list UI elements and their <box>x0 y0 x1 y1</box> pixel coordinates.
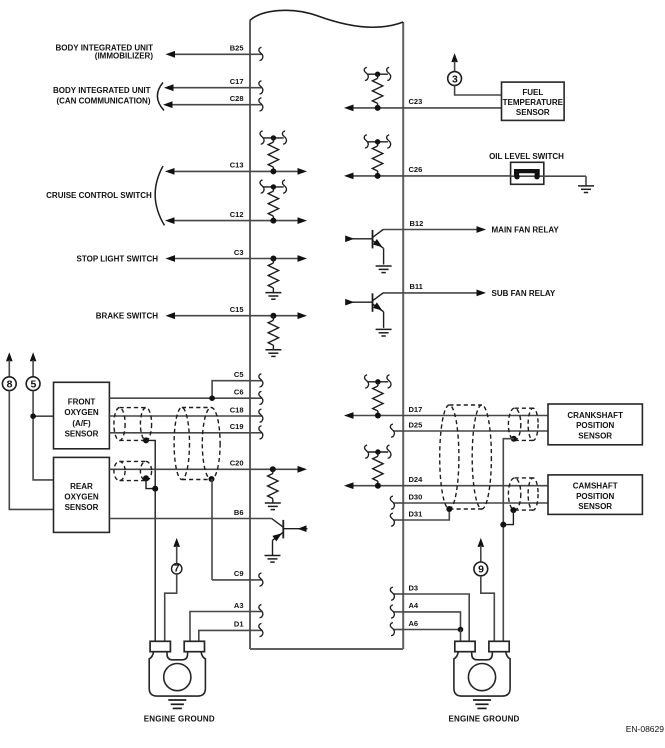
fuel temperature sensor box <box>502 82 565 120</box>
svg-text:SENSOR: SENSOR <box>516 108 550 117</box>
resistor pull-down at C20 with ground <box>265 466 281 509</box>
svg-text:CAMSHAFT: CAMSHAFT <box>573 482 618 491</box>
right engine ground lug <box>448 641 519 723</box>
node A3: ECM ground wire <box>190 601 263 642</box>
outer shield (dashed) around D17/D25/D24/D30 harness <box>440 405 492 512</box>
node D3: ECM ground wire <box>390 583 469 641</box>
svg-text:BRAKE SWITCH: BRAKE SWITCH <box>96 312 158 321</box>
svg-text:BODY INTEGRATED UNIT: BODY INTEGRATED UNIT <box>53 86 151 95</box>
svg-text:CRANKSHAFT: CRANKSHAFT <box>567 411 623 420</box>
svg-text:D24: D24 <box>409 475 424 484</box>
node C15: brake switch wire <box>96 305 307 321</box>
node C17: CAN wire <box>164 77 263 94</box>
rear oxygen sensor box <box>54 457 110 532</box>
node A4: ECM ground wire <box>390 601 460 629</box>
left engine ground lug <box>144 641 215 723</box>
node C9: shield drain pin <box>212 569 263 586</box>
ground <box>265 293 281 300</box>
crankshaft shield drain <box>503 436 517 642</box>
outer shield drain to C9 <box>209 476 215 580</box>
svg-text:D17: D17 <box>409 405 423 414</box>
node 7: circled connector 7 with up arrow <box>165 538 182 641</box>
svg-text:B11: B11 <box>410 282 423 291</box>
svg-text:(A/F): (A/F) <box>72 419 91 428</box>
shield (dashed) around D17/D25 near crankshaft sensor <box>508 408 538 440</box>
wire from 5 down with branch to both sensors <box>33 391 53 480</box>
svg-text:ENGINE GROUND: ENGINE GROUND <box>144 715 215 724</box>
resistor pull-down at C15 with ground <box>265 313 281 357</box>
svg-text:B25: B25 <box>230 44 244 53</box>
svg-text:SENSOR: SENSOR <box>65 429 99 438</box>
svg-text:(CAN COMMUNICATION): (CAN COMMUNICATION) <box>56 97 150 106</box>
svg-text:CRUISE CONTROL SWITCH: CRUISE CONTROL SWITCH <box>46 191 152 200</box>
ground <box>265 503 281 510</box>
resistor pull-up at D24 <box>365 445 391 489</box>
node A6: ECM ground wire <box>390 619 463 642</box>
outer shield (dashed) around C18/C19/C20 harness <box>174 408 220 480</box>
ground <box>376 329 392 336</box>
svg-text:POSITION: POSITION <box>576 421 614 430</box>
ground at oil level switch <box>585 176 587 186</box>
node 5: circled connector 5 with up arrow <box>26 352 53 480</box>
resistor pull-up at C12 <box>260 180 286 224</box>
transistor Q-B6 (mirrored, emitter grounded) <box>265 519 308 563</box>
ECM wavy top edge <box>250 10 403 27</box>
svg-text:5: 5 <box>30 379 36 391</box>
svg-text:7: 7 <box>174 562 180 574</box>
brace arc for CAN pair <box>157 83 164 111</box>
resistor pull-down at C3 with ground <box>265 256 281 300</box>
svg-text:C6: C6 <box>234 388 244 397</box>
transistor Q-B11 <box>345 293 391 336</box>
svg-text:D3: D3 <box>409 583 419 592</box>
svg-text:D1: D1 <box>234 620 244 629</box>
svg-text:C9: C9 <box>234 569 244 578</box>
ECM left boundary line <box>249 20 251 649</box>
svg-text:TEMPERATURE: TEMPERATURE <box>503 98 564 107</box>
node 3: circled connector 3 with up arrow <box>448 53 502 95</box>
svg-text:D31: D31 <box>409 509 423 518</box>
svg-text:C15: C15 <box>230 305 244 314</box>
ground <box>265 556 281 563</box>
svg-text:REAR: REAR <box>70 482 93 491</box>
node B6: rear sensor heater wire to transistor <box>109 508 271 519</box>
svg-text:C13: C13 <box>230 161 244 170</box>
resistor pull-up at C23 <box>364 67 390 111</box>
svg-text:FUEL: FUEL <box>522 88 543 97</box>
svg-text:C28: C28 <box>230 94 244 103</box>
crankshaft position sensor box <box>548 404 642 445</box>
svg-text:SENSOR: SENSOR <box>578 502 612 511</box>
node D31: shield drain pin <box>390 509 449 526</box>
svg-text:C17: C17 <box>230 77 244 86</box>
resistor pull-up at C26 <box>364 135 390 179</box>
wire from 8 to rear oxygen sensor <box>9 391 53 510</box>
ECM right boundary line <box>402 22 404 649</box>
node C26: oil level switch signal <box>344 165 511 179</box>
node D17: crankshaft position sensor signal <box>344 405 548 419</box>
svg-text:C23: C23 <box>409 97 423 106</box>
svg-text:STOP LIGHT SWITCH: STOP LIGHT SWITCH <box>77 255 159 264</box>
node C6: front sensor signal wire <box>109 388 262 405</box>
node C28: CAN wire <box>53 83 263 111</box>
node C12: cruise control switch wire <box>46 166 307 225</box>
svg-text:D25: D25 <box>409 420 423 429</box>
ECM box outline (torn-edge top) <box>250 10 403 649</box>
transistor Q-B12 <box>345 230 391 273</box>
node B12: main fan relay output <box>383 219 560 235</box>
node C18: front sensor wire <box>109 405 262 422</box>
node C23: fuel temperature sensor signal <box>344 97 502 111</box>
svg-text:MAIN FAN RELAY: MAIN FAN RELAY <box>492 226 560 235</box>
node 9: circled connector 9 with up arrow <box>474 538 494 641</box>
svg-text:OXYGEN: OXYGEN <box>64 493 98 502</box>
front oxygen (A/F) sensor box <box>54 382 110 449</box>
node D30: camshaft sensor return <box>390 492 548 509</box>
svg-text:B12: B12 <box>410 219 424 228</box>
shield (dashed) around D24/D30 near camshaft sensor <box>508 478 538 510</box>
svg-text:C12: C12 <box>230 210 244 219</box>
shield drain wire of front pair <box>143 437 155 641</box>
node C20: rear sensor signal wire <box>109 459 307 473</box>
node D25: crankshaft sensor return <box>390 420 548 437</box>
brace arc for cruise pair <box>155 166 164 225</box>
node B11: sub fan relay output <box>383 282 556 298</box>
svg-text:3: 3 <box>452 73 458 85</box>
svg-text:C20: C20 <box>230 459 244 468</box>
wire from 7 to engine ground <box>165 574 177 641</box>
node D1: ECM ground wire <box>199 620 263 642</box>
node C3: stop light switch wire <box>77 248 307 264</box>
node C19: front sensor wire <box>109 422 262 439</box>
svg-text:OIL LEVEL SWITCH: OIL LEVEL SWITCH <box>489 152 564 161</box>
svg-text:SENSOR: SENSOR <box>578 431 612 440</box>
shield (dashed) around C20 near rear sensor <box>114 461 152 480</box>
shield drain wire of rear C20 shield <box>143 475 158 491</box>
svg-text:EN-08629: EN-08629 <box>626 724 665 734</box>
camshaft shield drain <box>500 507 516 527</box>
svg-text:C19: C19 <box>230 422 244 431</box>
node 8: circled connector 8 with up arrow <box>2 352 53 509</box>
shield (dashed) around C18/C19 pair near front sensor <box>114 408 152 441</box>
svg-text:ENGINE GROUND: ENGINE GROUND <box>448 715 519 724</box>
node C13: cruise control switch wire <box>165 161 307 175</box>
node D24: camshaft position sensor signal <box>344 475 548 489</box>
ground <box>376 266 392 273</box>
ground <box>265 350 281 357</box>
svg-text:C3: C3 <box>234 248 244 257</box>
svg-text:C26: C26 <box>409 165 423 174</box>
ECM bottom edge <box>250 648 403 650</box>
svg-text:C5: C5 <box>234 370 244 379</box>
svg-text:A6: A6 <box>409 619 419 628</box>
svg-text:SENSOR: SENSOR <box>65 503 99 512</box>
node C5: wire from C6 junction riser <box>212 370 263 398</box>
resistor pull-up at D17 <box>365 375 391 419</box>
svg-text:A3: A3 <box>234 601 244 610</box>
svg-text:8: 8 <box>7 379 13 391</box>
svg-text:C18: C18 <box>230 405 244 414</box>
camshaft position sensor box <box>548 475 642 515</box>
svg-text:OXYGEN: OXYGEN <box>64 408 98 417</box>
node B25: wire to body integrated unit (immobilizer) <box>56 44 263 61</box>
svg-text:SUB FAN RELAY: SUB FAN RELAY <box>492 289 556 298</box>
svg-text:POSITION: POSITION <box>576 492 614 501</box>
svg-text:9: 9 <box>478 564 484 576</box>
oil level switch <box>489 152 594 193</box>
svg-text:A4: A4 <box>409 601 419 610</box>
svg-text:FRONT: FRONT <box>68 398 96 407</box>
svg-text:B6: B6 <box>234 508 244 517</box>
svg-text:(IMMOBILIZER): (IMMOBILIZER) <box>95 51 154 60</box>
svg-text:D30: D30 <box>409 492 423 501</box>
resistor pull-up at C13 <box>260 131 286 175</box>
